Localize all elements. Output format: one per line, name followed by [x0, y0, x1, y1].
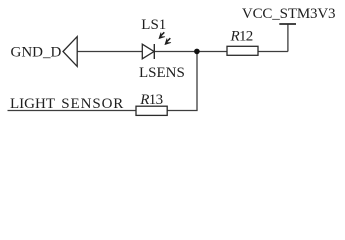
svg-text:SENSOR: SENSOR [61, 96, 124, 112]
svg-text:R12: R12 [230, 29, 253, 45]
svg-text:LS1: LS1 [141, 17, 166, 33]
svg-text:R13: R13 [139, 92, 162, 108]
svg-text:VCC_STM3V3: VCC_STM3V3 [242, 6, 336, 22]
svg-text:LIGHT: LIGHT [10, 96, 55, 112]
svg-text:GND_D: GND_D [11, 44, 62, 60]
svg-text:LSENS: LSENS [139, 65, 185, 81]
